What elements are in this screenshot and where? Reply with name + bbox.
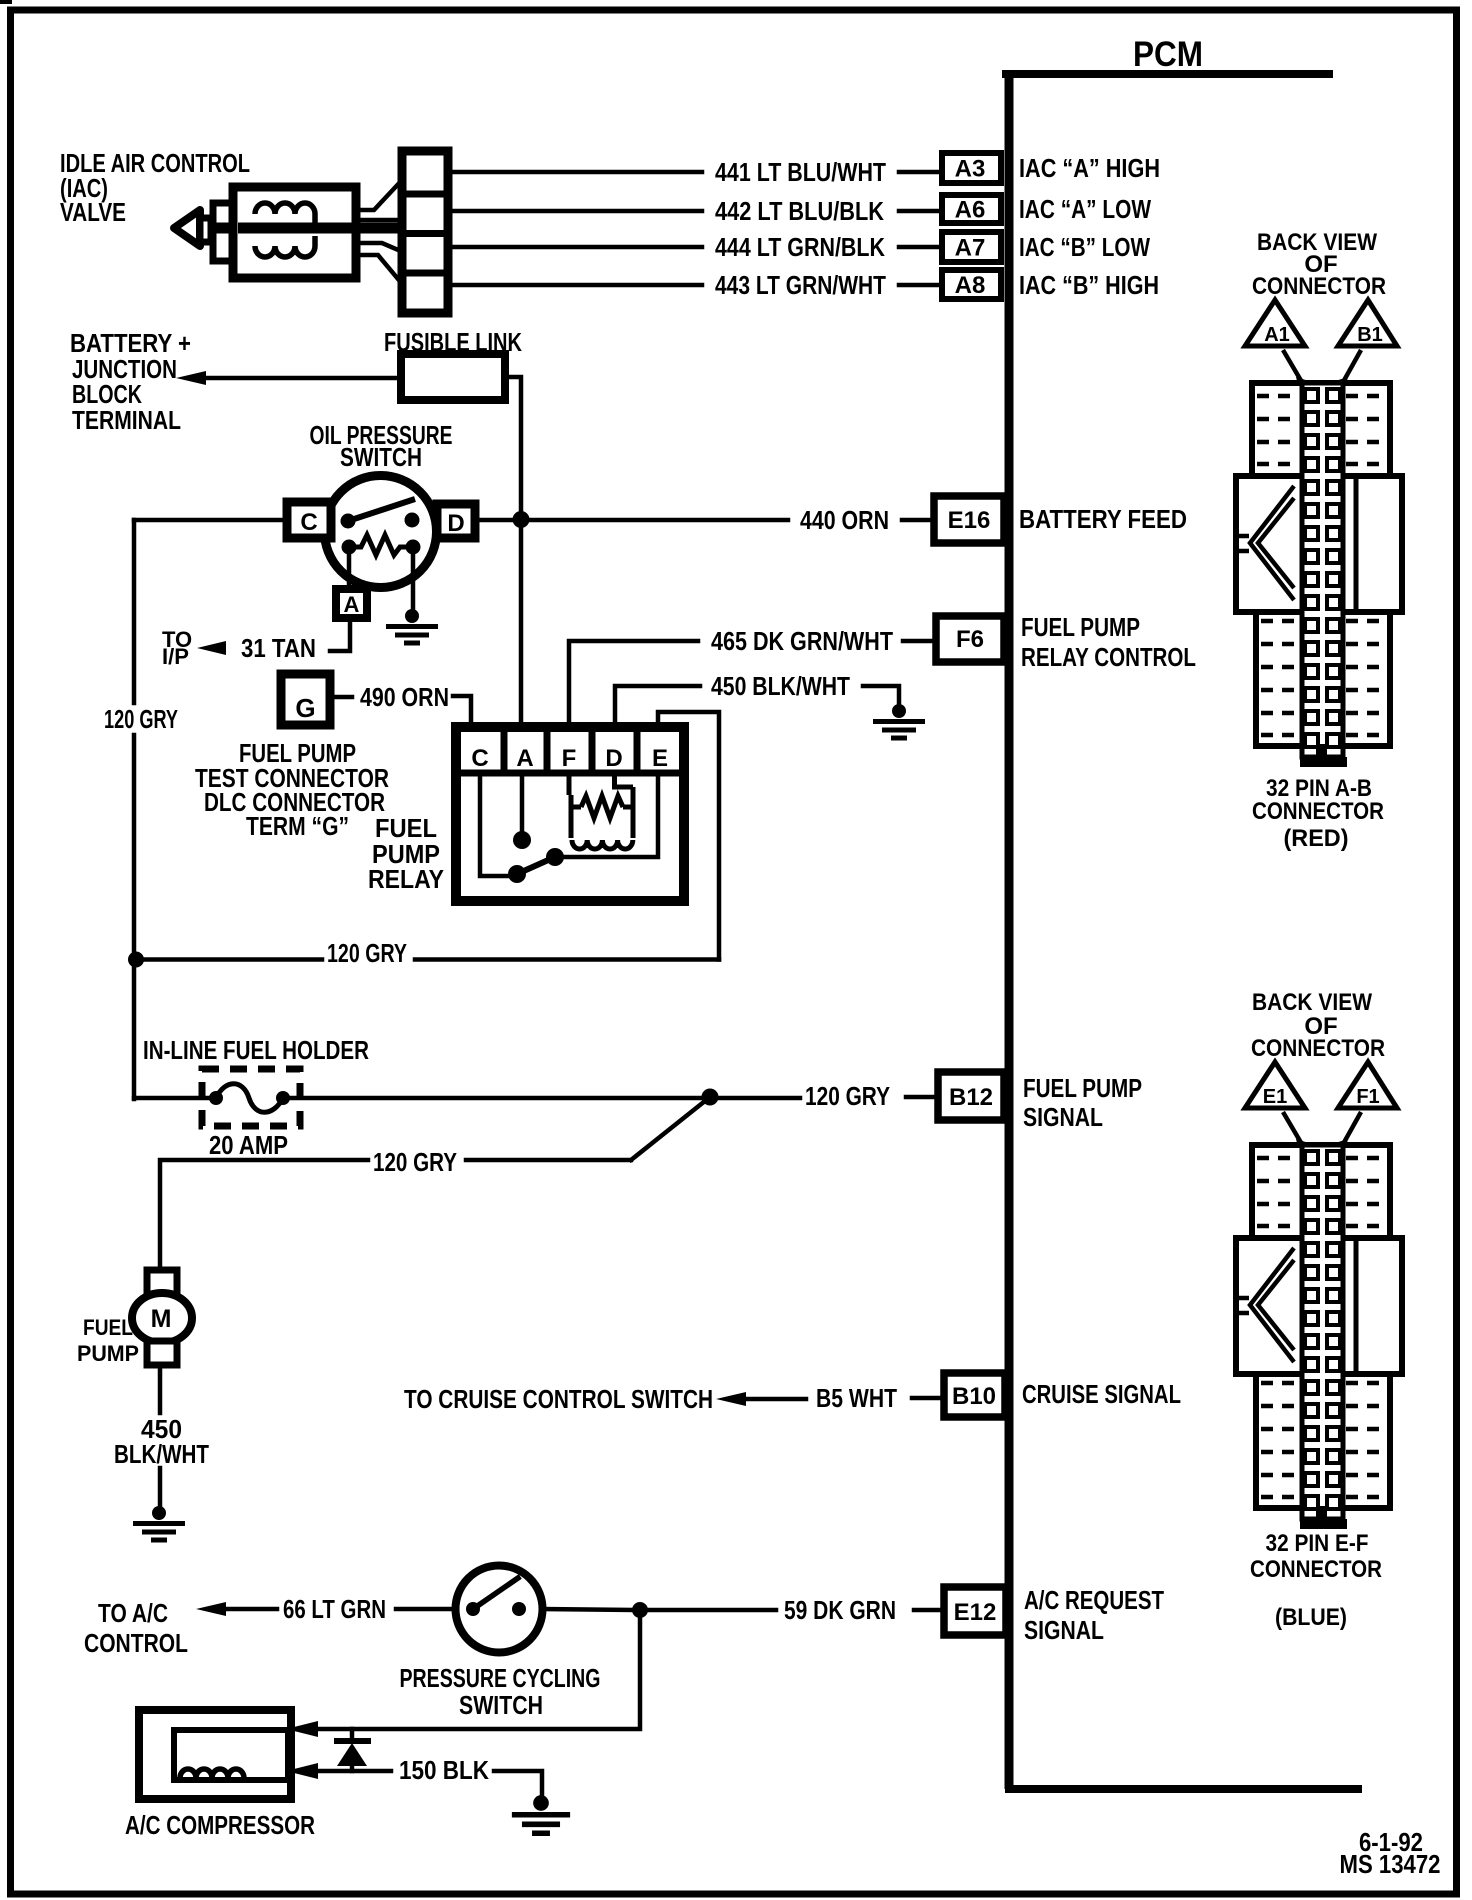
svg-text:A: A <box>344 592 360 617</box>
svg-text:E1: E1 <box>1263 1086 1287 1108</box>
svg-text:(RED): (RED) <box>1284 825 1349 852</box>
resistor contact dots <box>342 540 357 555</box>
svg-text:RELAY CONTROL: RELAY CONTROL <box>1021 644 1196 672</box>
svg-text:31 TAN: 31 TAN <box>241 635 316 663</box>
stub from G box <box>330 695 352 700</box>
wire stub to E16 <box>902 518 934 523</box>
svg-text:BATTERY FEED: BATTERY FEED <box>1019 506 1187 534</box>
resistor inside switch <box>349 535 413 555</box>
E-F connector captions <box>1250 989 1385 1631</box>
wire 442 left segment <box>448 209 702 214</box>
wire B5 WHT left segment <box>746 1397 806 1402</box>
PCM pin box A3 <box>942 153 1001 183</box>
fuel pump motor bottom terminal <box>147 1341 177 1365</box>
ground (450 BLK/WHT) <box>873 704 925 738</box>
wire 442 stub to pin A6 <box>899 209 939 214</box>
svg-text:IAC “B” HIGH: IAC “B” HIGH <box>1019 272 1159 300</box>
IAC valve collar <box>200 218 211 242</box>
arrowhead into compressor (top) <box>286 1721 318 1737</box>
PCM box top edge <box>1002 70 1333 78</box>
wire relay pin E return to bus <box>658 712 719 960</box>
svg-text:BATTERY +: BATTERY + <box>70 330 191 358</box>
pin F6 function label <box>1021 614 1196 672</box>
IAC valve coil A (top winding) <box>255 203 315 224</box>
svg-text:PCM: PCM <box>1133 35 1203 74</box>
wire junction down to compressor <box>320 1610 640 1729</box>
switch contact dots <box>341 514 356 529</box>
pin E12 function label <box>1024 1587 1164 1645</box>
wire diagonal branch from junction <box>631 1097 710 1160</box>
wire 150 BLK segment <box>318 1769 391 1774</box>
fuel pump relay body <box>456 727 684 901</box>
arrowhead to A/C control <box>196 1602 226 1616</box>
svg-text:IN-LINE FUEL HOLDER: IN-LINE FUEL HOLDER <box>143 1037 369 1065</box>
svg-text:450 BLK/WHT: 450 BLK/WHT <box>711 673 850 701</box>
ground (fuel pump) <box>133 1506 185 1540</box>
svg-text:TERM “G”: TERM “G” <box>246 813 349 841</box>
svg-text:SWITCH: SWITCH <box>459 1692 543 1720</box>
svg-text:CONTROL: CONTROL <box>84 1630 188 1658</box>
svg-text:B5 WHT: B5 WHT <box>816 1385 897 1413</box>
svg-text:VALVE: VALVE <box>60 199 126 227</box>
fuel pump test connector label <box>195 740 389 841</box>
relay coil <box>569 773 633 838</box>
relay switch to pin E <box>555 773 658 857</box>
relay coil scallops <box>572 840 633 849</box>
svg-text:A3: A3 <box>955 156 986 183</box>
IAC connector block cell dividers <box>402 194 448 273</box>
svg-text:B1: B1 <box>1357 324 1383 346</box>
svg-text:C: C <box>471 745 488 772</box>
wire 444 left segment <box>448 245 702 250</box>
svg-text:A: A <box>516 745 533 772</box>
IAC valve label <box>60 150 250 227</box>
svg-text:JUNCTION: JUNCTION <box>72 356 177 384</box>
svg-text:490 ORN: 490 ORN <box>360 684 449 712</box>
switch contacts <box>466 1602 480 1616</box>
PCM pin box A8 <box>942 270 1001 299</box>
svg-text:SIGNAL: SIGNAL <box>1024 1617 1104 1645</box>
wire 443 stub to pin A8 <box>899 283 939 288</box>
IAC valve coil B (bottom winding) <box>255 236 315 257</box>
svg-text:CONNECTOR: CONNECTOR <box>1251 1035 1385 1062</box>
wire 120 GRY fuse line <box>134 1096 800 1101</box>
A-B connector captions <box>1252 229 1386 852</box>
arrowhead to battery junction <box>176 371 206 385</box>
svg-text:A8: A8 <box>955 272 986 299</box>
relay switch lever <box>517 857 555 874</box>
fuel pump test connector G box <box>281 674 330 725</box>
svg-text:BACK VIEW: BACK VIEW <box>1252 989 1372 1016</box>
oil pressure switch terminal C <box>287 502 331 538</box>
label TO A/C CONTROL <box>84 1600 188 1658</box>
wire 66 LT GRN left segment <box>226 1607 277 1612</box>
svg-text:FUEL: FUEL <box>375 815 437 843</box>
svg-text:D: D <box>447 510 464 537</box>
svg-text:150 BLK: 150 BLK <box>399 1757 490 1785</box>
wire switch to junction <box>541 1609 633 1610</box>
svg-text:PUMP: PUMP <box>77 1341 139 1366</box>
svg-text:IAC “B” LOW: IAC “B” LOW <box>1019 234 1151 262</box>
svg-text:RELAY: RELAY <box>368 866 444 894</box>
wire resistor to terminal A <box>347 547 352 590</box>
svg-text:PUMP: PUMP <box>372 841 440 869</box>
wire 120 GRY relay return horizontal <box>136 957 719 962</box>
svg-text:444 LT GRN/BLK: 444 LT GRN/BLK <box>715 234 885 262</box>
PCM pin box A6 <box>942 195 1001 223</box>
svg-text:BLK/WHT: BLK/WHT <box>114 1441 209 1469</box>
drawing date stamp <box>1340 1829 1441 1879</box>
relay terminal dividers <box>504 729 637 773</box>
svg-text:SIGNAL: SIGNAL <box>1023 1104 1103 1132</box>
PCM pin box A7 <box>942 232 1001 262</box>
svg-text:120 GRY: 120 GRY <box>327 940 407 968</box>
wire junction to 59 DK GRN <box>648 1608 776 1613</box>
relay terminal row bottom edge <box>459 770 681 777</box>
PCM pin box E12 <box>944 1587 1006 1635</box>
svg-text:450: 450 <box>141 1416 182 1444</box>
PCM pin box E16 <box>934 496 1004 543</box>
svg-text:442 LT BLU/BLK: 442 LT BLU/BLK <box>715 198 884 226</box>
svg-text:FUEL PUMP: FUEL PUMP <box>1023 1075 1142 1103</box>
svg-text:20 AMP: 20 AMP <box>209 1132 288 1160</box>
junction node fuel pump signal <box>702 1089 719 1106</box>
svg-text:G: G <box>295 693 315 723</box>
wire 150 BLK to ground <box>494 1771 542 1797</box>
svg-text:443 LT GRN/WHT: 443 LT GRN/WHT <box>715 272 886 300</box>
switch lever <box>473 1578 518 1609</box>
wire 450 to ground <box>863 686 899 705</box>
arrowhead to I/P <box>197 641 226 655</box>
svg-text:E: E <box>652 745 668 772</box>
svg-text:A/C REQUEST: A/C REQUEST <box>1024 1587 1164 1615</box>
wire 450 from relay pin D <box>615 686 700 727</box>
wire stub to B10 <box>912 1396 944 1401</box>
wire to switch <box>396 1607 458 1612</box>
IAC valve shaft continues over stem <box>213 223 403 234</box>
pressure cycling switch body <box>456 1566 543 1653</box>
fusible link body <box>401 354 505 400</box>
svg-text:A6: A6 <box>955 197 986 224</box>
svg-text:IAC “A” LOW: IAC “A” LOW <box>1019 196 1152 224</box>
svg-text:TO A/C: TO A/C <box>98 1600 168 1628</box>
svg-text:CONNECTOR: CONNECTOR <box>1250 1556 1382 1583</box>
wire stub to B12 <box>906 1095 938 1100</box>
svg-text:M: M <box>151 1305 172 1333</box>
PCM pin box B10 <box>944 1373 1005 1417</box>
svg-text:465 DK GRN/WHT: 465 DK GRN/WHT <box>711 628 893 656</box>
IAC lead to pin 3 <box>356 243 403 252</box>
svg-text:TO CRUISE CONTROL SWITCH: TO CRUISE CONTROL SWITCH <box>404 1386 713 1414</box>
in-line fuel holder dashed case <box>202 1069 300 1126</box>
32 pin A-B connector (red) back view <box>1236 300 1402 767</box>
A/C compressor clutch coil housing <box>174 1730 288 1780</box>
svg-text:CONNECTOR: CONNECTOR <box>1252 273 1386 300</box>
oil pressure switch terminal D <box>437 504 475 538</box>
svg-text:FUEL PUMP: FUEL PUMP <box>239 740 356 768</box>
IAC valve stem block <box>213 203 234 261</box>
junction node A/C request <box>632 1602 648 1618</box>
svg-text:SWITCH: SWITCH <box>340 444 422 472</box>
arrowhead to cruise control switch <box>716 1392 746 1406</box>
oil pressure switch terminal A <box>336 589 367 618</box>
IAC lead to pin 4 <box>356 255 403 285</box>
svg-text:IAC “A” HIGH: IAC “A” HIGH <box>1019 155 1160 183</box>
svg-text:E12: E12 <box>954 1599 997 1626</box>
wire C terminal to left bus <box>134 518 290 523</box>
IAC valve cone tip <box>174 210 200 246</box>
wire motor to ground (450 BLK/WHT) <box>158 1365 163 1507</box>
svg-text:CRUISE SIGNAL: CRUISE SIGNAL <box>1022 1381 1181 1409</box>
arrowhead into compressor (bottom) <box>286 1763 318 1779</box>
wire 441 stub to pin A3 <box>899 170 939 175</box>
svg-text:BLOCK: BLOCK <box>72 381 142 409</box>
relay pin C to switch contact <box>480 773 514 876</box>
svg-text:FUEL: FUEL <box>83 1315 133 1340</box>
svg-text:59 DK GRN: 59 DK GRN <box>784 1597 896 1625</box>
wire to battery junction <box>204 376 401 381</box>
wire D terminal to E16 (440 ORN) <box>473 518 788 523</box>
IAC valve shaft inside body <box>238 223 356 234</box>
wire left 120 GRY bus vertical <box>132 520 137 1099</box>
svg-text:F1: F1 <box>1356 1086 1379 1108</box>
svg-text:120 GRY: 120 GRY <box>373 1149 457 1177</box>
relay armature feed from pin A <box>520 773 525 832</box>
svg-text:440 ORN: 440 ORN <box>800 507 889 535</box>
oil pressure switch label <box>310 422 453 472</box>
svg-text:TERMINAL: TERMINAL <box>72 407 181 435</box>
wire 443 left segment <box>448 283 702 288</box>
wire 444 stub to pin A7 <box>899 245 939 250</box>
PCM pin box B12 <box>938 1072 1004 1120</box>
svg-text:120 GRY: 120 GRY <box>104 706 178 734</box>
svg-text:CONNECTOR: CONNECTOR <box>1252 798 1384 825</box>
label 450 BLK/WHT <box>114 1416 209 1469</box>
fuse element <box>216 1084 283 1113</box>
svg-text:PRESSURE CYCLING: PRESSURE CYCLING <box>400 1665 601 1693</box>
svg-text:D: D <box>605 745 622 772</box>
svg-text:B10: B10 <box>952 1383 996 1410</box>
IAC valve pintle shaft <box>198 223 357 234</box>
svg-text:(BLUE): (BLUE) <box>1275 1604 1347 1631</box>
wire 441 left segment <box>448 170 702 175</box>
PCM box bottom edge <box>1005 1785 1362 1793</box>
junction node fusible/battery feed <box>513 511 530 528</box>
switch lever <box>348 499 415 521</box>
fuel pump relay label <box>368 815 444 894</box>
svg-text:C: C <box>300 509 317 536</box>
wire 490 ORN to relay pin C <box>453 696 471 727</box>
IAC stem channel lines <box>356 220 403 229</box>
wire 465 from relay pin F <box>569 641 698 727</box>
wire stub to F6 <box>903 639 936 644</box>
wire 120 GRY to fuel pump <box>160 1160 631 1270</box>
svg-text:F: F <box>562 745 577 772</box>
svg-text:FUEL PUMP: FUEL PUMP <box>1021 614 1140 642</box>
svg-text:B12: B12 <box>949 1084 993 1111</box>
A/C compressor body <box>139 1710 291 1799</box>
wire fusible link to relay pin A (440 circuit) <box>505 377 521 727</box>
svg-text:A/C COMPRESSOR: A/C COMPRESSOR <box>125 1812 315 1840</box>
IAC valve body <box>233 187 356 278</box>
svg-text:120 GRY: 120 GRY <box>805 1083 890 1111</box>
svg-text:441 LT BLU/WHT: 441 LT BLU/WHT <box>715 159 886 187</box>
svg-text:IDLE AIR CONTROL: IDLE AIR CONTROL <box>60 150 250 178</box>
wire resistor to ground <box>411 547 416 612</box>
junction node left bus / relay return <box>128 952 144 968</box>
svg-text:I/P: I/P <box>162 644 189 669</box>
pressure cycling switch label <box>400 1665 601 1720</box>
svg-text:F6: F6 <box>956 626 984 653</box>
svg-text:32 PIN E-F: 32 PIN E-F <box>1266 1530 1369 1557</box>
svg-text:66 LT GRN: 66 LT GRN <box>283 1596 386 1624</box>
IAC lead to pin 1 <box>356 179 403 210</box>
svg-text:E16: E16 <box>948 507 991 534</box>
oil pressure switch body <box>325 476 437 588</box>
svg-text:A1: A1 <box>1264 324 1290 346</box>
diode <box>350 1729 355 1771</box>
svg-text:MS 13472: MS 13472 <box>1340 1851 1441 1879</box>
A/C compressor coil scallops <box>180 1769 244 1778</box>
svg-text:A7: A7 <box>955 235 986 262</box>
ground (150 BLK) <box>512 1795 570 1833</box>
relay armature fixed dot <box>513 831 531 849</box>
ground (oil pressure switch) <box>386 609 438 643</box>
32 pin E-F connector (blue) back view <box>1236 1062 1402 1529</box>
wire terminal A to 31 TAN <box>330 618 350 651</box>
PCM pin box F6 <box>936 616 1004 662</box>
fuel pump label <box>77 1315 139 1366</box>
IAC connector block <box>402 151 448 313</box>
PCM box left edge (main vertical) <box>1005 70 1014 1789</box>
fuel pump motor top terminal <box>147 1270 177 1294</box>
battery junction label <box>70 330 191 435</box>
wire stub to E12 <box>914 1608 944 1613</box>
pin B12 function label <box>1023 1075 1142 1132</box>
fuel pump motor body <box>132 1293 192 1343</box>
